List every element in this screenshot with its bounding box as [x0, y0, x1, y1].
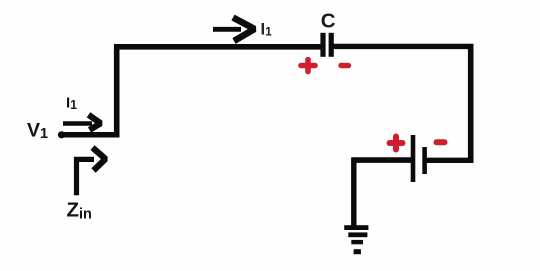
wire: left source lead (V1 node to left vertical): [58, 131, 118, 138]
wire: bottom horizontal, left of battery: [353, 157, 412, 163]
wire: left vertical segment: [114, 44, 120, 137]
capacitor - polarity mark: [341, 63, 349, 68]
arrow: top current I1: [213, 18, 255, 42]
svg-text:Zin: Zin: [67, 199, 92, 223]
svg-text:V1: V1: [27, 119, 48, 142]
capacitor + polarity mark: [301, 60, 315, 72]
wire: right vertical segment: [468, 44, 474, 163]
capacitor C plates: [323, 33, 331, 57]
battery + polarity mark: [390, 137, 403, 150]
wire: bottom horizontal, right of battery: [426, 158, 474, 163]
svg-text:I1: I1: [261, 20, 273, 38]
wire: ground branch vertical: [351, 157, 356, 227]
battery plates: [413, 135, 425, 182]
arrow: Zin looking-in arrow: [74, 148, 106, 196]
ground: [344, 225, 368, 254]
wire: top horizontal, right of capacitor: [333, 44, 473, 49]
svg-text:I1: I1: [66, 94, 77, 112]
svg-text:C: C: [321, 9, 336, 32]
arrow: input current I1 (left): [63, 115, 101, 130]
wire: top horizontal, left of capacitor: [114, 44, 321, 50]
battery - polarity mark: [437, 139, 445, 145]
